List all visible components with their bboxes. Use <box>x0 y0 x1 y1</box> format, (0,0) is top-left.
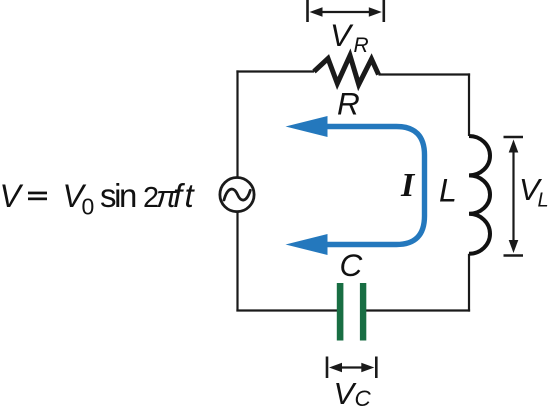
svg-text:sin: sin <box>100 177 136 214</box>
VR measure bar right <box>382 0 385 22</box>
svg-text:R: R <box>337 86 360 122</box>
wire top-right segment <box>379 73 471 75</box>
svg-text:C: C <box>340 247 363 283</box>
wire left upper <box>236 70 238 178</box>
wire bottom-right segment <box>366 309 470 311</box>
VR measure bar left <box>306 0 309 22</box>
svg-text:L: L <box>439 173 457 209</box>
inductor L coil <box>469 136 490 254</box>
VL measure bar top <box>504 136 524 139</box>
svg-text:0: 0 <box>82 194 95 220</box>
wire right lower <box>468 254 470 312</box>
AC source V <box>220 178 254 212</box>
svg-text:L: L <box>538 190 549 212</box>
AC source sine symbol <box>224 189 250 200</box>
svg-text:R: R <box>354 34 369 57</box>
VC measure bar right <box>375 357 378 379</box>
resistor R <box>314 56 379 85</box>
wire right upper <box>468 73 470 136</box>
VC measure bar left <box>326 357 329 379</box>
current I arrow (blue U path) <box>320 127 425 245</box>
capacitor C plate right <box>360 283 366 341</box>
wire bottom-left segment <box>236 309 337 311</box>
current arrowhead bottom <box>286 234 328 255</box>
wire left lower <box>236 211 238 312</box>
equals sign <box>28 192 47 195</box>
svg-text:V: V <box>330 17 354 53</box>
current arrowhead top <box>286 116 328 137</box>
VL measure arrow <box>512 148 514 244</box>
wire top-left segment <box>236 70 314 72</box>
capacitor C plate left <box>337 283 344 341</box>
svg-text:V: V <box>0 178 24 214</box>
VL measure bar bottom <box>504 254 524 257</box>
svg-text:I: I <box>400 167 416 204</box>
VC measure arrow <box>337 366 366 368</box>
VR measure arrow <box>318 11 374 13</box>
svg-text:C: C <box>355 386 372 411</box>
